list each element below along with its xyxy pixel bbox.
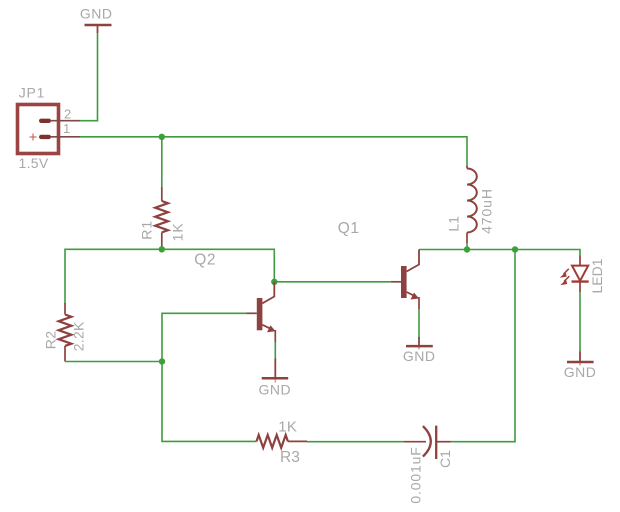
svg-text:2.2K: 2.2K [71, 321, 87, 351]
wire top right rail Q1 collector to LED [419, 250, 580, 257]
wire R3 to C1 [307, 441, 404, 443]
wire node A to L1 top [162, 137, 467, 166]
resistor R1 [155, 187, 168, 249]
svg-text:L1: L1 [446, 216, 462, 232]
wire LED1 cathode to GND [579, 292, 581, 353]
junction node A [159, 134, 165, 140]
capacitor C1 [404, 426, 451, 459]
wire C1 to node E (up right rail) [451, 250, 516, 442]
pin JP1-1 stub [51, 136, 80, 138]
svg-text:GND: GND [564, 364, 597, 380]
svg-text:GND: GND [403, 348, 436, 364]
inductor L1 [467, 166, 477, 244]
wire node A down to R1 [161, 137, 163, 187]
svg-text:1.5V: 1.5V [19, 155, 49, 171]
ground GND top symbol [85, 25, 112, 33]
svg-text:LED1: LED1 [589, 258, 605, 293]
svg-text:JP1: JP1 [19, 85, 46, 101]
resistor R2 [59, 303, 72, 362]
junction node D [159, 358, 165, 364]
svg-text:2: 2 [64, 107, 71, 122]
wire node B right and down to node C [162, 249, 274, 281]
svg-text:R1: R1 [139, 220, 155, 240]
wire Q1 emitter to GND [418, 309, 420, 339]
wire L1 bottom to rail [466, 243, 468, 250]
ground GND (LED1) [567, 352, 594, 366]
svg-text:C1: C1 [437, 450, 453, 468]
svg-text:GND: GND [258, 381, 291, 397]
connector JP1 [18, 105, 59, 154]
svg-text:R2: R2 [42, 330, 58, 349]
svg-text:GND: GND [80, 6, 113, 22]
svg-text:Q1: Q1 [338, 220, 360, 237]
ground GND (Q2) [262, 359, 289, 383]
LED LED1 [560, 266, 589, 286]
junction node E [512, 246, 518, 252]
junction node C (Q2 collector) [271, 279, 277, 285]
transistor Q2 [247, 282, 276, 333]
ground GND (Q1) [406, 337, 433, 350]
wire node B left to R2 top [65, 249, 162, 303]
transistor Q1 [391, 250, 419, 300]
wire node D up to Q2 base [162, 313, 247, 361]
wire JP1 pin1 to node A [80, 136, 162, 138]
wire GND-top to JP1 pin2 [80, 33, 98, 121]
wire Q2 emitter to GND [274, 342, 276, 360]
wire R2 bottom to node D [65, 361, 162, 363]
svg-text:R3: R3 [280, 449, 300, 466]
pin JP1-2 stub [51, 120, 80, 122]
junction node F (L1 bottom) [464, 246, 470, 252]
wire node D down to bottom rail / R3 [162, 362, 257, 442]
junction node B (R1 bottom) [159, 246, 165, 252]
svg-text:1: 1 [63, 121, 70, 136]
wire node C to Q1 base [274, 281, 390, 283]
resistor R3 [257, 435, 308, 448]
svg-text:470uH: 470uH [478, 188, 494, 234]
svg-text:Q2: Q2 [194, 251, 216, 268]
svg-text:1K: 1K [278, 418, 297, 435]
svg-text:0.001uF: 0.001uF [408, 446, 424, 503]
svg-text:1K: 1K [169, 222, 185, 241]
